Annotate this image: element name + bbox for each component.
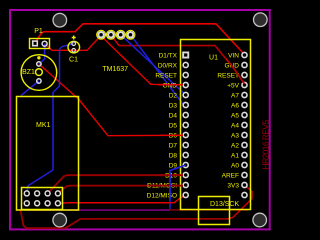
- wire overlay: dark red D10 row over label: [158, 174, 183, 176]
- wire overlay: red D6 row over label: [160, 134, 183, 136]
- wire: purple bottom run (red+blue overlap): [25, 209, 170, 211]
- svg-text:D0/RX: D0/RX: [158, 62, 178, 69]
- svg-text:D3: D3: [169, 102, 178, 109]
- wire: red header pin2 to +5V run: [111, 35, 119, 46]
- wire: blue header pin3 to D2 pad: [121, 35, 186, 95]
- wire: red header pin1 to GND pad: [101, 36, 186, 85]
- svg-text:A0: A0: [231, 162, 239, 169]
- U1 left pin labels: [147, 52, 178, 199]
- module MK1 outline: [17, 97, 79, 211]
- svg-text:P1: P1: [34, 28, 43, 35]
- wire: red P1.1 to VIN: [35, 24, 245, 55]
- P1 pad 2: [42, 41, 47, 46]
- BZ1 pads: [37, 62, 41, 66]
- svg-text:A3: A3: [231, 132, 239, 139]
- wire: red P1.2 to C1 to header pin1: [45, 36, 102, 51]
- svg-text:U1: U1: [209, 55, 218, 62]
- C1 pads: [72, 42, 76, 46]
- U1 right pin labels: [217, 52, 239, 189]
- svg-text:D8: D8: [169, 152, 178, 159]
- svg-text:A4: A4: [231, 122, 239, 129]
- P1 pad 1 (square): [32, 40, 38, 46]
- svg-text:A5: A5: [231, 112, 239, 119]
- wire: dark red bottom run: [21, 211, 229, 229]
- 8-pad connector pads: [24, 191, 60, 206]
- connector outline (8-pad): [22, 188, 63, 210]
- svg-text:D2: D2: [169, 92, 178, 99]
- wire: blue C1 top to 8-pad connector: [27, 44, 74, 194]
- svg-text:VIN: VIN: [228, 52, 239, 59]
- svg-text:D13/SCK: D13/SCK: [210, 201, 240, 208]
- wire: dark red bottom horizontal run: [170, 209, 248, 211]
- wire overlay: red GND row over label: [158, 84, 183, 86]
- TM1637 header pads: [98, 32, 133, 38]
- wire overlay: dark red D11 row over label: [150, 185, 183, 187]
- svg-text:HR2016 REV5: HR2016 REV5: [260, 120, 270, 170]
- TM1637 header outline: [97, 30, 135, 39]
- wire: blue BZ1 bottom stub: [21, 81, 39, 96]
- svg-text:D4: D4: [169, 112, 178, 119]
- wire: red 3V3 pad to bottom run: [228, 185, 252, 219]
- wire: red mid run to +5V pad: [119, 46, 245, 84]
- board outline (keepout): [10, 10, 270, 229]
- U1 pin 1 pad (square): [182, 52, 189, 59]
- capacitor C1 plus mark: [72, 36, 76, 40]
- wire: red bottom run to D12/MISO pad: [58, 195, 186, 203]
- wire overlay: red +5V diagonal over labels: [226, 59, 245, 85]
- svg-text:+5V: +5V: [227, 82, 239, 89]
- svg-text:RESET: RESET: [155, 72, 177, 79]
- wire: red BZ1 to D6 pad: [39, 64, 186, 136]
- module U1 outline: [181, 40, 251, 210]
- svg-text:A1: A1: [231, 152, 239, 159]
- mounting hole bottom-left: [53, 213, 67, 227]
- svg-text:D5: D5: [169, 122, 178, 129]
- wire: dark red to D10: [48, 175, 186, 193]
- svg-text:A2: A2: [231, 142, 239, 149]
- wire: dark red to D11/MOSI: [58, 185, 186, 193]
- svg-text:A7: A7: [231, 92, 239, 99]
- buzzer BZ1 center hole: [36, 69, 43, 76]
- wire overlay: blue D9 elbow over labels: [170, 165, 186, 200]
- mounting hole top-left: [53, 13, 67, 27]
- mounting hole bottom-right: [253, 213, 267, 227]
- svg-text:BZ1: BZ1: [22, 69, 35, 76]
- svg-text:D1/TX: D1/TX: [159, 52, 178, 59]
- svg-text:A6: A6: [231, 102, 239, 109]
- connector P1 outline: [30, 39, 50, 49]
- wire: blue P1.2 to BZ1 top: [39, 44, 45, 64]
- U1 right column pads: [242, 52, 247, 197]
- U1 left column pads: [183, 62, 188, 197]
- svg-text:3V3: 3V3: [227, 182, 239, 189]
- connector D13 box outline: [199, 197, 230, 225]
- svg-text:D7: D7: [169, 142, 178, 149]
- buzzer BZ1 polarity mark: [37, 56, 40, 59]
- svg-text:RESET: RESET: [217, 72, 239, 79]
- buzzer BZ1 outline: [21, 55, 57, 91]
- svg-text:TM1637: TM1637: [102, 66, 128, 73]
- svg-text:MK1: MK1: [36, 122, 51, 129]
- wire: blue D9 elbow down to bottom run: [170, 165, 186, 209]
- svg-text:AREF: AREF: [222, 172, 239, 179]
- svg-text:GND: GND: [163, 82, 178, 89]
- svg-text:D12/MISO: D12/MISO: [147, 192, 177, 199]
- svg-text:C1: C1: [69, 57, 78, 64]
- mounting hole top-right: [253, 13, 267, 27]
- wire: blue header pin4 to D3 pad: [131, 35, 186, 105]
- capacitor C1 outline: [68, 41, 80, 53]
